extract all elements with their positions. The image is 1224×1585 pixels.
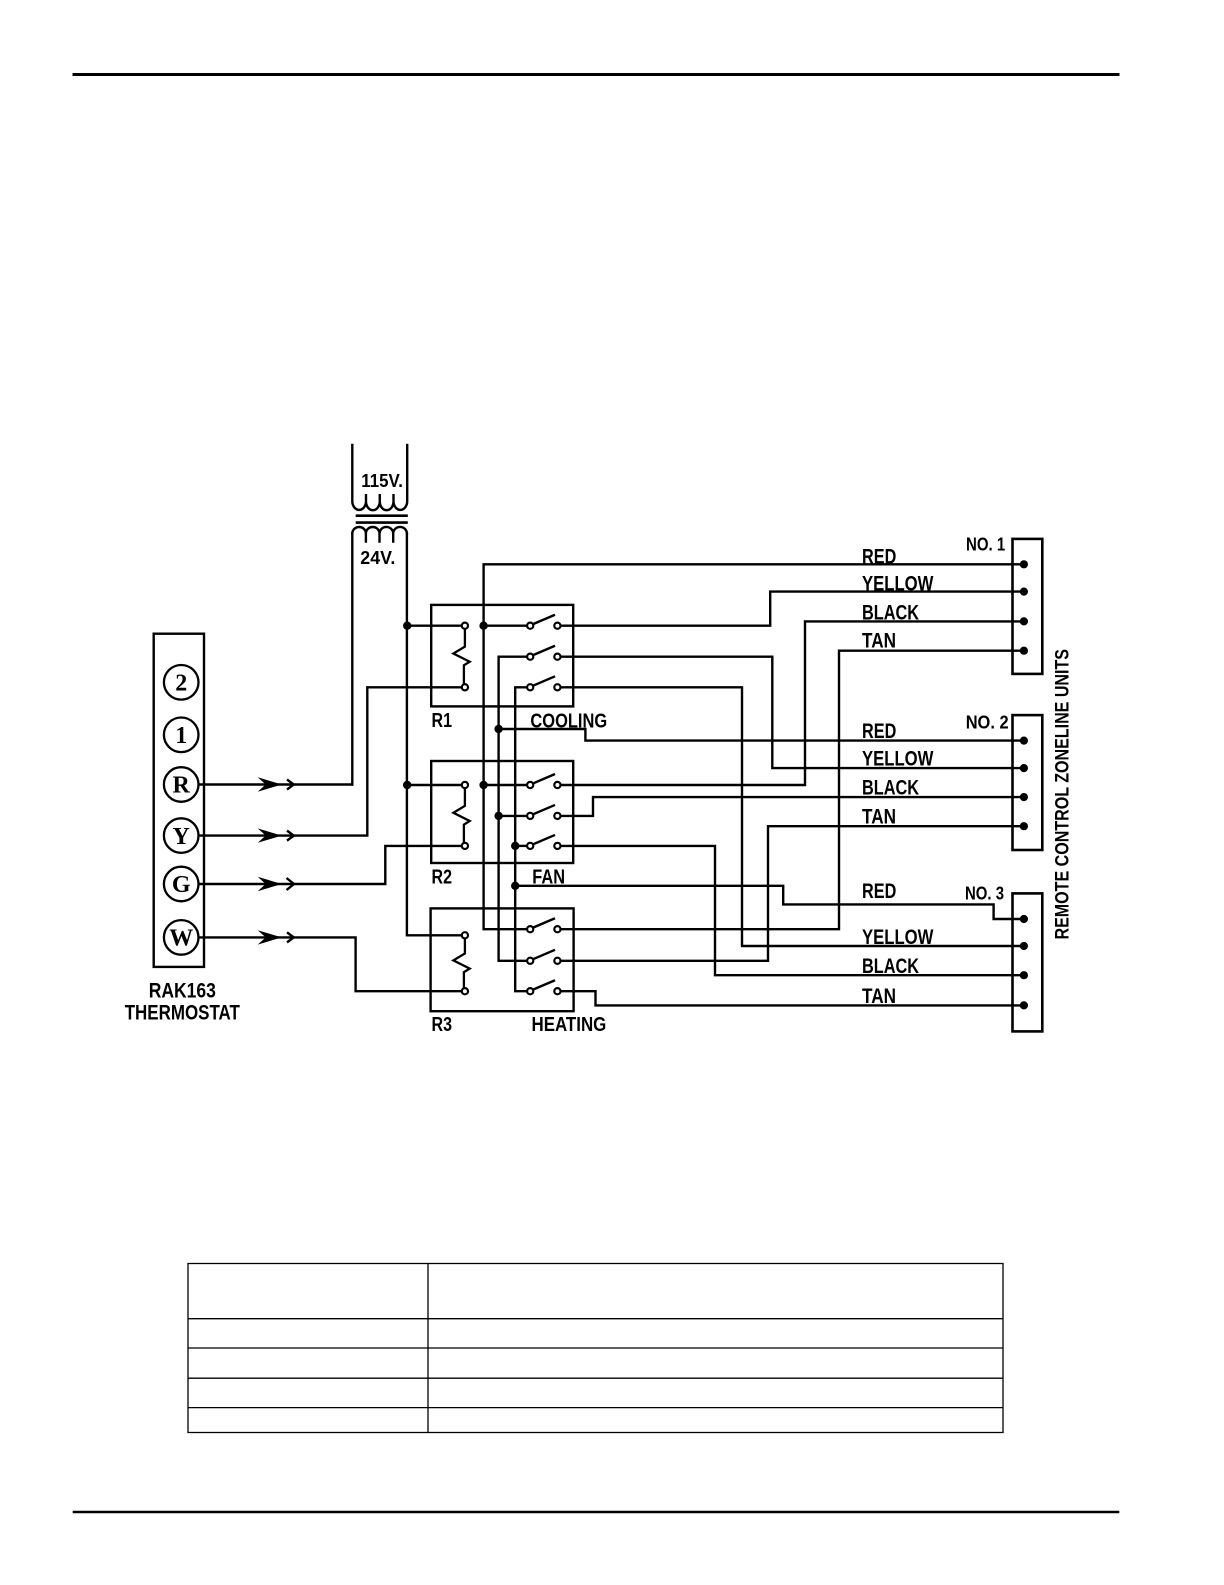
pin: R2 sw3 contacts <box>527 843 533 849</box>
svg-text:TAN: TAN <box>862 806 896 829</box>
svg-text:R3: R3 <box>432 1013 453 1036</box>
svg-text:FAN: FAN <box>532 866 565 889</box>
terminal circle 1 <box>164 718 199 753</box>
thermostat box <box>154 634 204 967</box>
component labels <box>125 535 1074 1037</box>
node: RED1 riser / R2 sw1 <box>479 781 487 789</box>
terminal: unit2 RED <box>1020 737 1028 745</box>
wire: thermostat Y terminal to R1 coil bottom <box>199 687 462 835</box>
arrow on wire W <box>258 930 282 944</box>
svg-text:RAK163: RAK163 <box>149 980 216 1003</box>
relay R3 sw2 blade <box>533 950 554 959</box>
svg-text:YELLOW: YELLOW <box>862 573 934 596</box>
pin: R2 coil bottom <box>462 843 468 849</box>
top rule <box>74 73 1118 76</box>
pin: R2 sw2 contacts <box>527 813 533 819</box>
transformer T1 primary winding 115V <box>352 445 407 510</box>
wire: RED run to unit 3 <box>515 886 1024 919</box>
wire: R1 sw3 to unit 3 YELLOW <box>561 687 1024 946</box>
pin: R3 sw3 contacts <box>527 988 533 994</box>
relay R3 coil <box>453 939 469 988</box>
pin: R2 coil top <box>462 782 468 788</box>
svg-text:Y: Y <box>173 824 190 850</box>
wire: R3 sw3 to unit 3 TAN <box>561 991 1024 1005</box>
node: RED3 riser tap <box>511 882 519 890</box>
relay R2 coil <box>453 788 469 842</box>
svg-text:R1: R1 <box>432 709 453 732</box>
wire: riser to R2 sw1 <box>484 784 527 786</box>
terminal: unit1 BLACK <box>1020 617 1028 625</box>
wire: transformer secondary right leg 24V bus down to R3 coil <box>407 534 462 936</box>
svg-text:TAN: TAN <box>862 985 896 1008</box>
terminal: unit3 RED <box>1020 915 1028 923</box>
svg-text:BLACK: BLACK <box>862 776 919 799</box>
relay R2 sw1 blade <box>533 775 554 784</box>
wire: R2 sw1 to unit 1 BLACK <box>561 621 1024 785</box>
bus: unit 3 RED riser (sw3 commons) <box>515 687 527 991</box>
relay R1 sw1 blade <box>533 615 554 624</box>
pin: R1 coil top <box>462 623 468 629</box>
node: 24V bus / R2 coil <box>403 781 411 789</box>
svg-text:R2: R2 <box>432 866 453 889</box>
bus: unit 1 RED riser (R1/R2/R3 sw1 commons) and run to unit 1 RED <box>484 564 1024 929</box>
chevron on wire G <box>287 878 295 890</box>
terminal: unit2 BLACK <box>1020 793 1028 801</box>
relay R1 coil <box>453 629 469 684</box>
wire: thermostat R terminal to transformer secondary <box>199 783 353 785</box>
table <box>188 1264 1003 1433</box>
terminal circle W <box>164 920 199 955</box>
relay R1 box <box>431 605 573 707</box>
table row line 2 <box>188 1347 1003 1349</box>
transformer T1 core <box>357 516 407 523</box>
open contact circles <box>462 623 561 995</box>
node: RED2 riser / R2 sw2 <box>494 812 502 820</box>
svg-text:G: G <box>172 872 191 898</box>
terminal: unit3 YELLOW <box>1020 942 1028 950</box>
arrows on thermostat wires <box>258 777 294 944</box>
table outer border <box>188 1264 1003 1433</box>
relay R1 sw2 blade <box>533 646 554 655</box>
wire: R3 sw1 to unit 1 TAN <box>561 651 1024 930</box>
wire: R2 sw2 to unit 2 BLACK <box>561 797 1024 816</box>
svg-text:1: 1 <box>175 723 187 749</box>
transformer T1 secondary winding 24V <box>352 527 407 543</box>
svg-text:TAN: TAN <box>862 630 896 653</box>
relay R3 sw3 blade <box>533 981 554 990</box>
svg-text:NO. 3: NO. 3 <box>965 884 1004 904</box>
node: RED2 riser tap <box>494 725 502 733</box>
pin: R1 sw1 contacts <box>527 623 533 629</box>
relay R2 sw3 blade <box>533 835 554 844</box>
svg-text:24V.: 24V. <box>360 547 395 568</box>
bottom rule <box>74 1511 1118 1514</box>
svg-text:W: W <box>169 926 193 952</box>
wire: riser to R2 sw3 <box>515 845 527 847</box>
pin: R3 sw2 contacts <box>527 958 533 964</box>
wire: R1 sw2 to unit 2 YELLOW <box>561 657 1024 768</box>
arrow on wire G <box>258 877 282 891</box>
terminal: unit2 YELLOW <box>1020 764 1028 772</box>
table row line 1 <box>188 1318 1003 1320</box>
terminal circle G <box>164 867 199 902</box>
svg-text:BLACK: BLACK <box>862 601 919 624</box>
svg-text:THERMOSTAT: THERMOSTAT <box>125 1002 240 1025</box>
wire: R1 coil top feed <box>407 625 461 627</box>
wire: RED run to unit 2 <box>499 729 1024 741</box>
terminal circle Y <box>164 818 199 853</box>
pin: R3 sw1 contacts <box>527 926 533 932</box>
svg-text:NO. 2: NO. 2 <box>966 712 1009 732</box>
relay R2 sw2 blade <box>533 805 554 814</box>
svg-text:RED: RED <box>862 880 896 903</box>
unit terminal dots <box>1020 560 1028 1009</box>
wire: R2 sw3 to unit 3 BLACK <box>561 846 1024 975</box>
junction dots <box>403 622 519 891</box>
terminal circle 2 <box>164 665 199 700</box>
pin: R3 coil top <box>462 932 468 938</box>
svg-text:YELLOW: YELLOW <box>862 748 934 771</box>
arrow on wire R <box>258 777 282 791</box>
wire: thermostat G terminal to R2 coil bottom <box>199 846 462 884</box>
node: RED3 riser / R2 sw3 <box>511 842 519 850</box>
chevron on wire W <box>287 932 294 942</box>
chevron on wire R <box>287 780 294 790</box>
wire: R2 coil top feed <box>407 784 461 786</box>
svg-text:115V.: 115V. <box>361 470 403 491</box>
pin: R2 sw1 contacts <box>527 782 533 788</box>
wire: riser to R2 sw2 <box>499 815 527 817</box>
terminal: unit3 BLACK <box>1020 971 1028 979</box>
relay R3 box <box>431 908 574 1011</box>
wire: thermostat W terminal to R3 coil bottom <box>199 937 462 991</box>
wire: R3 sw2 to unit 2 TAN <box>561 826 1024 961</box>
unit NO.2 box <box>1013 715 1043 850</box>
svg-text:R: R <box>173 773 191 799</box>
relay R2 box <box>431 761 573 863</box>
unit NO.3 box <box>1013 893 1043 1031</box>
table row line 3 <box>188 1377 1003 1379</box>
table column divider <box>427 1264 429 1433</box>
terminal: unit1 YELLOW <box>1020 588 1028 596</box>
svg-text:NO. 1: NO. 1 <box>966 535 1005 555</box>
chevron on wire Y <box>287 831 294 841</box>
pin: R1 sw2 contacts <box>527 654 533 660</box>
svg-text:RED: RED <box>862 546 896 569</box>
thermostat terminal circles <box>164 665 199 955</box>
svg-text:BLACK: BLACK <box>862 955 919 978</box>
relay R3 sw1 blade <box>533 919 554 928</box>
svg-text:RED: RED <box>862 720 896 743</box>
terminal: unit3 TAN <box>1020 1001 1028 1009</box>
node: 24V bus / R1 coil <box>403 622 411 630</box>
svg-text:2: 2 <box>175 671 187 697</box>
terminal circle R <box>164 767 199 802</box>
arrow on wire Y <box>258 828 282 842</box>
svg-text:REMOTE CONTROL ZONELINE UNITS: REMOTE CONTROL ZONELINE UNITS <box>1052 649 1074 940</box>
terminal: unit2 TAN <box>1020 822 1028 830</box>
svg-text:COOLING: COOLING <box>530 710 607 733</box>
pin: R1 sw3 contacts <box>527 684 533 690</box>
relay R1 sw3 blade <box>533 677 554 686</box>
svg-text:HEATING: HEATING <box>532 1013 607 1036</box>
unit NO.1 box <box>1013 539 1043 674</box>
pin: R3 coil bottom <box>462 988 468 994</box>
terminal: unit1 TAN <box>1020 647 1028 655</box>
wire: riser to R1 sw1 <box>484 625 527 627</box>
node: RED1 riser / R1 sw1 <box>479 622 487 630</box>
wire: transformer secondary left leg down to thermostat R level <box>351 534 353 785</box>
svg-text:YELLOW: YELLOW <box>862 926 934 949</box>
terminal: unit1 RED <box>1020 560 1028 568</box>
bus: unit 2 RED riser (sw2 commons) <box>499 657 527 961</box>
table row line 4 <box>188 1407 1003 1409</box>
wire: R1 sw1 to unit 1 YELLOW <box>561 592 1024 626</box>
pin: R1 coil bottom <box>462 684 468 690</box>
